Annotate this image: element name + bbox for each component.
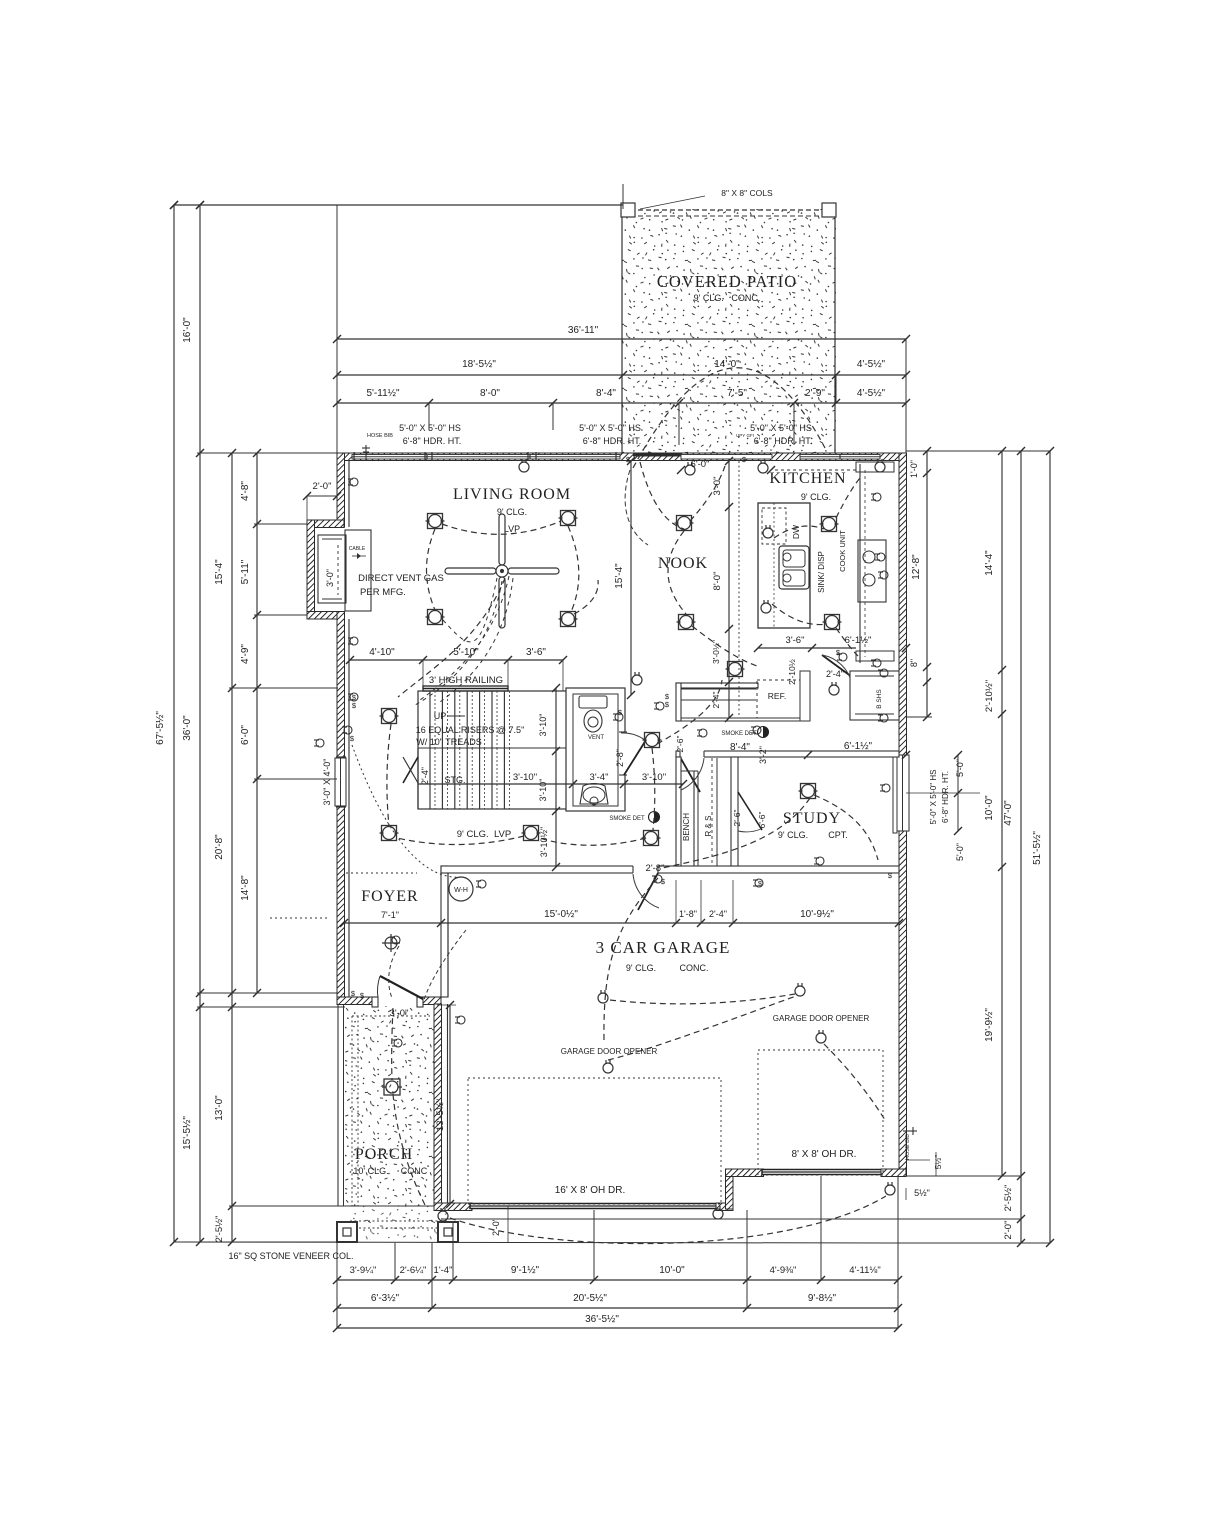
patio door opening [681,455,772,460]
svg-text:5'-0" X 5'-0" HS: 5'-0" X 5'-0" HS [929,770,938,825]
svg-text:FOYER: FOYER [361,888,418,905]
svg-text:10'-0": 10'-0" [984,795,995,821]
svg-text:6'-8" HDR. HT.: 6'-8" HDR. HT. [941,771,950,823]
patio left edge [621,209,623,455]
svg-text:BENCH: BENCH [682,813,691,841]
svg-text:GARAGE DOOR OPENER: GARAGE DOOR OPENER [561,1047,658,1056]
svg-text:7'-1": 7'-1" [381,910,399,920]
svg-text:CONC: CONC [401,1166,428,1176]
svg-text:10'-9½": 10'-9½" [800,909,834,920]
svg-text:3'-10": 3'-10" [513,772,537,783]
top exterior wall [337,453,906,461]
svg-text:2'-0": 2'-0" [1003,1221,1014,1240]
svg-text:8'-0": 8'-0" [712,572,723,591]
svg-text:COOK UNIT: COOK UNIT [838,530,847,572]
dim line bottom row2 [337,1307,898,1309]
left connector lines [197,452,337,454]
hall counter line [676,717,800,719]
garage door to hall opening [633,864,658,875]
svg-text:SINK/ DISP: SINK/ DISP [817,551,826,593]
dim line living 4-10 5-10 3-6 [350,659,563,661]
svg-text:W-H: W-H [454,887,468,894]
wiring arc garage bottom [450,1196,886,1244]
svg-text:4'-10": 4'-10" [369,647,395,658]
lower cabinet bottom right [856,651,894,661]
kitchen counter bottom line [758,647,856,649]
svg-text:15'-5½": 15'-5½" [182,1116,193,1150]
svg-text:2'-0": 2'-0" [491,1218,501,1236]
wiring arcs kitchen [774,526,824,538]
svg-text:5'-11": 5'-11" [240,559,251,584]
window 3x4 on left wall [335,758,346,806]
svg-text:20'-5½": 20'-5½" [573,1293,607,1304]
svg-text:KITCHEN: KITCHEN [769,470,846,487]
kitchen window [800,455,880,460]
svg-text:2'-4": 2'-4" [826,669,844,679]
svg-text:2'-4": 2'-4" [709,909,727,919]
right window dim line [957,755,959,831]
dim 5-5 right garage corner [906,1159,930,1161]
garage door dashed outline right [758,1050,883,1175]
kitchen island [758,503,810,628]
dim line bath 3-4 3-10 [418,783,683,785]
svg-text:5'-10": 5'-10" [453,647,479,658]
svg-text:PER MFG.: PER MFG. [360,587,406,598]
svg-text:CPT.: CPT. [828,830,848,840]
foyer east wall lower [447,873,449,997]
svg-text:2'-4": 2'-4" [420,767,430,785]
stairs mid landing wall [418,747,567,749]
svg-text:W/ 10" TREADS: W/ 10" TREADS [416,737,482,747]
rod and shelf dashed [711,758,713,866]
dim line y1219 [441,1218,1021,1220]
svg-text:2'-6¼": 2'-6¼" [400,1265,427,1276]
svg-text:9' CLG. LVP: 9' CLG. LVP [457,829,511,840]
svg-text:3'-10": 3'-10" [642,772,666,783]
svg-text:10' CLG.: 10' CLG. [353,1166,388,1176]
fireplace bay top wall [307,520,344,528]
svg-text:1'-4": 1'-4" [434,1265,453,1276]
svg-text:3'-10½": 3'-10½" [539,827,549,857]
wall outlets left wall [348,478,358,486]
svg-text:12'-8": 12'-8" [911,554,922,580]
patio sliding door leaf [633,453,681,457]
hall-garage door leaf and swing [638,873,658,910]
garage north wall [441,866,899,873]
svg-text:2'-0": 2'-0" [313,481,332,492]
garage west inner face [447,1004,449,1203]
svg-text:4'-5½": 4'-5½" [857,388,886,399]
porch bottom edge [337,1205,434,1207]
svg-text:8'-4": 8'-4" [730,742,750,753]
left wall window sill ticks [336,756,346,758]
dim line far left 67-5 [173,205,175,1242]
kitchen upper cabinets dashed top [775,469,856,471]
dim 13-5 porch vertical [449,1005,451,1204]
svg-text:5'-0": 5'-0" [955,843,965,861]
svg-text:CONC.: CONC. [680,963,709,973]
garage door dashed outline left [468,1078,721,1204]
powder bath walls [566,688,625,811]
dim line 18-5 14-0 4-5 [337,374,906,376]
stone veneer column right [438,1222,458,1242]
svg-text:REF.: REF. [768,691,786,701]
foyer dotted ceiling break [346,872,417,874]
ref dashed box [757,680,802,718]
svg-text:18'-5½": 18'-5½" [462,359,496,370]
svg-text:6'-1½": 6'-1½" [844,741,873,752]
foyer-garage wall [441,866,448,997]
right connector top [906,450,1050,452]
svg-text:6'-3½": 6'-3½" [371,1293,400,1304]
svg-text:20'-8": 20'-8" [214,834,225,860]
garage front step wall vertical [726,1169,734,1209]
study door opening [680,749,704,759]
kitchen window mullion [839,454,841,460]
pantry box [850,671,899,720]
left exterior wall lower [337,806,345,997]
dim vertical 3-10 x3 [555,688,557,867]
island pendant lights [763,525,773,538]
svg-text:2'-10½: 2'-10½ [787,659,797,685]
toilet tank [579,696,607,708]
front wall at foyer [337,997,441,1005]
wiring arc study [662,798,810,868]
svg-text:47'-0": 47'-0" [1003,800,1014,826]
svg-text:2'-5½": 2'-5½" [1003,1185,1014,1212]
svg-text:14'-8": 14'-8" [240,875,251,901]
svg-text:3'-2": 3'-2" [758,746,768,764]
stone veneer column left [337,1222,357,1242]
front door opening [372,995,423,1006]
svg-text:2'-6": 2'-6" [675,736,685,753]
svg-text:5½": 5½" [933,1155,943,1170]
svg-text:6'-8" HDR. HT.: 6'-8" HDR. HT. [583,436,641,446]
svg-text:8'-0": 8'-0" [480,388,500,399]
cooktop [858,540,886,602]
svg-text:GARAGE DOOR OPENER: GARAGE DOOR OPENER [773,1014,870,1023]
svg-text:15'-4": 15'-4" [614,563,625,589]
wiring arcs nook [668,531,686,614]
dim line left 15-4 20-8 13-0 2-5 [231,453,233,1242]
svg-text:4'-11⅛": 4'-11⅛" [849,1265,880,1276]
svg-text:2'-10½": 2'-10½" [984,680,995,712]
svg-text:6'-1½": 6'-1½" [845,635,872,646]
dim line garage top 15-0 1-8 2-4 10-9 [344,922,899,924]
svg-text:5'-0" X 5'-0" HS: 5'-0" X 5'-0" HS [750,423,812,433]
svg-text:6'-0": 6'-0" [240,725,251,745]
porch left slab edge lines [337,1004,339,1206]
svg-text:6'-6": 6'-6" [757,812,767,829]
svg-text:9' CLG.: 9' CLG. [626,963,656,973]
svg-text:19'-9½": 19'-9½" [984,1008,995,1042]
svg-text:SMOKE DET: SMOKE DET [721,731,757,737]
svg-text:5'-0" X 5'-0" HS: 5'-0" X 5'-0" HS [579,423,641,433]
garage 16ft overhead door [470,1204,718,1209]
front door leaf [380,976,423,999]
svg-text:LIVING ROOM: LIVING ROOM [453,486,571,503]
svg-text:5'-11½": 5'-11½" [366,388,400,399]
svg-text:7'-5": 7'-5" [727,388,747,399]
mud hall west wall [676,683,681,721]
svg-text:HOSE BIB: HOSE BIB [905,1134,911,1160]
svg-text:9' CLG. CONC.: 9' CLG. CONC. [694,293,761,303]
svg-text:8": 8" [909,659,919,667]
svg-text:5'-0" X 5'-0" HS: 5'-0" X 5'-0" HS [399,423,461,433]
kitchen dashed ceiling line [738,461,740,718]
dim line right 1-0 12-8 8 [926,451,928,717]
svg-text:UPY GFI: UPY GFI [736,433,754,438]
dashed arcs foyer switches [389,946,399,998]
wiring arc patio [633,368,825,468]
smoke detectors [649,812,660,823]
svg-text:13'-5½": 13'-5½" [435,1099,446,1131]
patio corner column 8x8 left [621,203,635,217]
fireplace bay bottom wall [307,612,344,620]
fireplace opening dashed [344,545,346,595]
toilet bowl [584,710,602,732]
dotted curve stairs to foyer [352,745,461,877]
dashed curves patio gfi [625,470,648,545]
svg-text:3'-9¼": 3'-9¼" [350,1265,377,1276]
garage front wall segment right bay [726,1169,764,1177]
svg-text:8' X 8' OH DR.: 8' X 8' OH DR. [792,1149,857,1160]
dim line nook 15-4 vertical [630,461,632,695]
svg-text:3'-0": 3'-0" [325,569,335,587]
svg-text:9' CLG.: 9' CLG. [778,830,808,840]
svg-text:9' CLG.: 9' CLG. [801,492,831,502]
stair treads upper flight [429,691,431,748]
recessed can lights [426,514,445,529]
patio top dashed edge [622,209,836,211]
svg-text:3'-0½": 3'-0½" [711,640,721,664]
svg-text:HOSE BIB: HOSE BIB [367,433,393,439]
svg-text:1'-0": 1'-0" [909,460,919,478]
dim line right 14-4 2-10 10-0 19-9 [1001,451,1003,1176]
left exterior wall upper [337,453,345,527]
porch right wall [434,1004,442,1210]
stair railing [423,686,508,691]
porch inner dotted edge lines [351,1016,353,1206]
covered patio slab (stippled concrete) [622,209,836,455]
svg-text:COVERED PATIO: COVERED PATIO [657,272,797,291]
garage front wall right jamb 16ft door [716,1203,733,1211]
svg-text:67'-5½": 67'-5½" [155,711,166,745]
dim line kitchen 3-6 6-1 [758,647,906,649]
closet door leaf [738,792,762,830]
lower stair left wall [417,748,419,809]
svg-text:2'-8": 2'-8" [615,749,625,767]
dim line bottom row1 [337,1279,898,1281]
dim line top 16ft [174,204,623,206]
svg-text:36'-0": 36'-0" [182,715,193,741]
front door swing arc [377,976,380,998]
svg-text:2'-9": 2'-9" [805,388,825,399]
dim line right 51-5 [1049,451,1051,1243]
svg-text:16'-0": 16'-0" [182,317,193,343]
svg-text:15'-4": 15'-4" [214,559,225,585]
svg-text:B SHS: B SHS [876,689,883,709]
svg-text:2'-5½": 2'-5½" [214,1216,225,1243]
inner face line left wall upper [348,460,350,527]
left exterior wall mid [337,612,345,762]
dim 2-0 bay [307,495,337,497]
svg-text:3'-10": 3'-10" [538,779,548,802]
svg-text:14'-4": 14'-4" [984,550,995,576]
kitchen sink double basin [779,546,809,589]
kitchen right counter [859,464,861,663]
dim line left segments [256,453,258,993]
svg-text:3'-0": 3'-0" [712,477,723,496]
stairs outer box [418,691,567,809]
wiring arc porch [393,1094,425,1205]
dim line study 8-4 3-2 6-1 [680,754,906,756]
stair treads lower flight [429,748,431,809]
garage 8ft overhead door [762,1170,883,1175]
svg-text:3 CAR GARAGE: 3 CAR GARAGE [596,938,731,957]
svg-text:3'-0": 3'-0" [390,1008,409,1019]
nook-kitchen divider line [728,461,730,718]
svg-text:8" X 8" COLS: 8" X 8" COLS [721,188,773,198]
water heater [449,877,473,901]
svg-text:15'-0½": 15'-0½" [544,909,578,920]
inner face line left wall lower [348,619,350,997]
bottom extension verticals [336,1242,338,1328]
foyer ceiling fixture [382,934,400,952]
svg-text:1'-8": 1'-8" [679,909,697,919]
window sill ticks top wall [353,452,355,461]
wiring arcs hall [387,724,391,826]
svg-text:9'-8½": 9'-8½" [808,1293,837,1304]
dim extension verticals top [336,205,338,453]
svg-text:51'-5½": 51'-5½" [1032,831,1043,865]
ceiling fan living room [445,514,559,628]
svg-text:3'-0" X 4'-0": 3'-0" X 4'-0" [322,759,332,806]
fireplace bay left wall [307,520,315,619]
svg-text:13'-0": 13'-0" [214,1095,225,1121]
pantry door leaf [822,655,852,677]
patio right edge [834,209,836,455]
svg-text:R & S: R & S [704,816,713,837]
svg-text:6'-8" HDR. HT.: 6'-8" HDR. HT. [754,436,812,446]
bath vanity [580,784,608,805]
svg-text:16' X 8' OH DR.: 16' X 8' OH DR. [555,1185,626,1196]
hose bib right [903,1130,917,1132]
kitchen south wall with pantry door [800,671,810,721]
study window on right wall [896,755,909,831]
study north wall [676,751,899,757]
svg-text:4'-9⅜": 4'-9⅜" [770,1265,797,1276]
svg-text:2'-6": 2'-6" [732,810,742,827]
garage ceiling outlets [598,990,608,1003]
svg-text:16 EQUAL RISERS @ 7.5": 16 EQUAL RISERS @ 7.5" [416,725,525,735]
svg-text:4'-8": 4'-8" [240,481,251,501]
svg-text:4'-9": 4'-9" [240,644,251,664]
mud hall north wall [676,683,758,688]
svg-text:3'-4": 3'-4" [590,772,609,783]
svg-text:3'-6": 3'-6" [526,647,546,658]
svg-text:8'-4": 8'-4" [596,388,616,399]
svg-text:5½": 5½" [914,1188,930,1198]
wiring arcs garage [604,878,658,1040]
svg-text:2'-8": 2'-8" [646,863,665,874]
porch light square [382,1079,402,1095]
stg closet door [403,757,418,783]
svg-text:CABLE: CABLE [349,546,366,552]
leader 8x8 cols [640,196,705,209]
wiring arcs living room [442,521,561,534]
svg-text:VENT: VENT [588,735,604,741]
hose bib top [365,445,367,460]
svg-text:14'-0": 14'-0" [714,359,740,370]
svg-text:36'-11": 36'-11" [568,325,599,336]
svg-text:2'-4": 2'-4" [711,692,721,709]
dim line right 47-0 2-5 2-0 [1020,451,1022,1243]
fireplace box [318,535,346,603]
svg-text:3'-6": 3'-6" [786,635,805,646]
dim line left 16-0 36-0 15-5 [199,205,201,1242]
closet east wall [731,757,738,866]
wall outlets right kitchen [871,493,881,501]
bottom line across garage [174,1242,898,1243]
top wall window band living room [352,455,620,460]
dim kitchen 3-0 8-0 vertical [728,461,730,629]
svg-text:6'-8" HDR. HT.: 6'-8" HDR. HT. [403,436,461,446]
svg-text:4'-5½": 4'-5½" [857,359,886,370]
right connectors [906,716,932,718]
svg-text:6'-0": 6'-0" [691,459,710,470]
ceiling outlets top wall [519,459,529,472]
svg-text:SMOKE DET: SMOKE DET [609,816,645,822]
upper cabinet top right [856,462,894,472]
garage front wall left jamb [434,1203,472,1211]
porch slab (stippled concrete) [345,1004,434,1206]
dim line 5-11 8-0 8-4 7-5 2-9 4-5 [337,402,906,404]
svg-text:10'-0": 10'-0" [659,1265,685,1276]
bath door opening and leaf [619,732,627,775]
patio corner column 8x8 right [822,203,836,217]
misc small fixtures [654,702,664,710]
svg-text:5'-0": 5'-0" [955,759,965,777]
island dashed dishwasher [762,508,786,544]
garage front wall right corner [881,1169,906,1177]
svg-text:LVP: LVP [504,524,520,534]
dim line 36-11 [337,338,906,340]
svg-text:NOOK: NOOK [658,555,708,572]
svg-text:STUDY: STUDY [783,810,841,827]
study door leaf [680,757,700,792]
svg-text:36'-5½": 36'-5½" [585,1314,619,1325]
svg-text:3'-10": 3'-10" [538,714,548,737]
svg-text:UP: UP [434,711,447,721]
svg-text:16" SQ STONE VENEER COL.: 16" SQ STONE VENEER COL. [228,1251,353,1261]
bench line [693,771,695,866]
svg-text:9'-1½": 9'-1½" [511,1265,540,1276]
right exterior wall [899,453,907,1176]
dim line bottom row3 [337,1327,898,1329]
bench closet west wall [676,757,681,866]
